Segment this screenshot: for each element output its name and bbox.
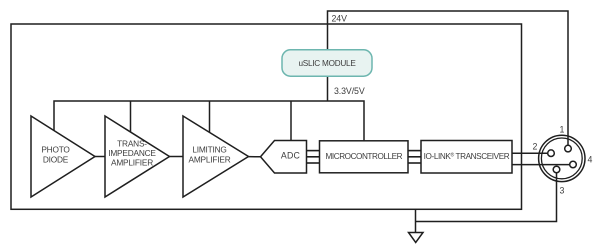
svg-text:1: 1 (560, 125, 565, 135)
svg-text:DIODE: DIODE (43, 154, 69, 164)
svg-text:uSLIC MODULE: uSLIC MODULE (298, 59, 356, 68)
svg-text:MICROCONTROLLER: MICROCONTROLLER (326, 152, 403, 161)
svg-text:4: 4 (588, 154, 593, 164)
svg-text:IMPEDANCE: IMPEDANCE (108, 148, 156, 158)
svg-text:PHOTO: PHOTO (41, 145, 70, 155)
svg-text:2: 2 (533, 142, 538, 152)
svg-text:3: 3 (560, 186, 565, 196)
svg-text:3.3V/5V: 3.3V/5V (334, 86, 365, 96)
svg-text:AMPLIFIER: AMPLIFIER (111, 158, 153, 168)
svg-text:24V: 24V (332, 14, 348, 24)
svg-text:LIMITING: LIMITING (192, 145, 226, 155)
svg-text:IO-LINK® TRANSCEIVER: IO-LINK® TRANSCEIVER (424, 152, 510, 162)
svg-text:ADC: ADC (281, 151, 301, 161)
svg-text:TRANS-: TRANS- (117, 139, 147, 149)
svg-text:AMPLIFIER: AMPLIFIER (189, 154, 231, 164)
